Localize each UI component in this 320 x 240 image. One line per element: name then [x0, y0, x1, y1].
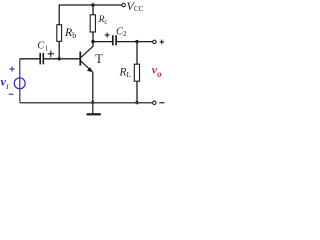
ground — [87, 103, 101, 115]
transistor emitter arrow — [87, 67, 93, 72]
wire: Rc top lead — [92, 5, 94, 16]
polarity − of output — [159, 102, 164, 104]
terminal: output − — [153, 101, 157, 105]
wire: Rc bottom lead to collector node — [92, 32, 94, 47]
transistor collector slant — [81, 46, 94, 58]
junction: collector node / C2 wire — [91, 40, 94, 43]
junction: output node / RL — [135, 40, 138, 43]
junction: top rail / Rc — [91, 3, 94, 6]
wire: RL bottom lead — [136, 81, 138, 103]
voltage source vi — [14, 59, 25, 103]
junction: base / Rb — [58, 57, 61, 60]
transistor T — [80, 46, 93, 72]
junction: emitter / bottom rail — [91, 101, 94, 104]
capacitor C2 plates — [113, 35, 116, 45]
wire: emitter vertical — [92, 72, 94, 103]
terminal: output + — [153, 40, 157, 44]
polarity − of source — [9, 93, 14, 95]
capacitor C1 plates — [40, 53, 43, 64]
wire: RL top lead — [136, 42, 138, 65]
svg-text:T: T — [95, 52, 103, 66]
polarity + of source — [10, 67, 15, 72]
resistor Rc — [90, 15, 95, 32]
wire: C2 to output terminal — [117, 41, 153, 43]
junction: RL / bottom rail — [135, 101, 138, 104]
wire: Rb bottom lead — [58, 41, 60, 59]
polarity + of output — [160, 40, 165, 45]
wire: Rb top lead — [58, 5, 60, 26]
wire: bottom ground rail — [20, 102, 152, 104]
transistor base bar — [79, 52, 81, 66]
terminal: VCC — [122, 3, 126, 7]
wire: top supply rail — [59, 4, 122, 6]
resistor Rb — [57, 25, 62, 42]
wire: input from source to base — [20, 58, 40, 60]
polarity + of C1 — [48, 50, 54, 57]
wire: collector node to C2 — [93, 41, 112, 43]
wire: C1 to base — [44, 58, 80, 60]
transistor emitter slant — [81, 61, 93, 72]
resistor RL — [134, 64, 139, 81]
polarity + of C2 — [105, 33, 110, 38]
